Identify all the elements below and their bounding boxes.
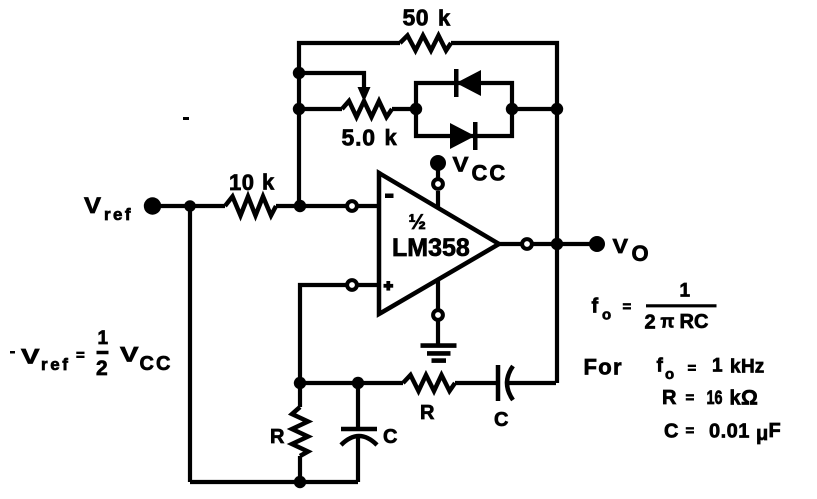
svg-text:V: V — [453, 154, 469, 177]
svg-text:k: k — [730, 388, 742, 410]
svg-text:CC: CC — [140, 353, 173, 375]
resistor R horizontal zigzag — [403, 375, 455, 391]
svg-text:f: f — [657, 356, 664, 377]
svg-text:Ω: Ω — [741, 387, 758, 410]
svg-text:2: 2 — [96, 357, 108, 380]
capacitor C horizontal right curved plate — [507, 366, 513, 400]
svg-text:½: ½ — [409, 211, 427, 234]
svg-text:For: For — [584, 355, 623, 380]
svg-text:1: 1 — [680, 281, 691, 302]
terminal dot Vcc — [430, 155, 446, 171]
wire 5.0k left stub — [299, 107, 342, 111]
wire capacitor to right rail — [508, 381, 556, 385]
svg-text:0.01: 0.01 — [709, 421, 750, 443]
wire R to capacitor — [455, 381, 496, 385]
svg-text:Hz: Hz — [741, 357, 764, 378]
svg-text:ref: ref — [41, 355, 71, 374]
svg-text:R: R — [420, 402, 435, 424]
node junction diode left — [410, 103, 422, 115]
svg-text:2: 2 — [645, 312, 656, 334]
op-amp Vcc pin wire — [436, 191, 440, 208]
svg-text:V: V — [613, 236, 629, 258]
svg-text:CC: CC — [472, 161, 508, 186]
node junction Vref branch — [184, 200, 196, 212]
wire inverting pin stub — [357, 204, 380, 208]
svg-text:=: = — [623, 299, 632, 316]
svg-text:5.0: 5.0 — [342, 125, 376, 151]
diode D2 bottom (cathode right) — [450, 123, 475, 149]
formula fo = 1 / 2 pi RC — [592, 281, 717, 334]
svg-text:V: V — [120, 344, 139, 367]
wire diode top branch — [416, 83, 512, 109]
svg-text:R: R — [270, 426, 285, 448]
svg-text:=: = — [686, 423, 695, 440]
ground symbol — [421, 346, 457, 361]
svg-text:k: k — [438, 6, 451, 31]
svg-text:ref: ref — [104, 205, 133, 224]
svg-text:O: O — [632, 241, 649, 266]
wire vertical R top lead — [298, 383, 302, 407]
svg-text:k: k — [385, 125, 398, 150]
op-amp ground pin wire — [436, 280, 440, 309]
wire 10k to inverting pin — [276, 204, 347, 208]
svg-text:RC: RC — [680, 311, 709, 333]
formula Vref = 1/2 Vcc — [21, 328, 172, 380]
wire vertical C bottom lead — [356, 438, 360, 482]
node junction feedback left — [294, 377, 306, 389]
wire vertical R bottom lead — [298, 456, 302, 482]
pin circle output — [522, 239, 532, 249]
svg-text:k: k — [730, 357, 741, 378]
wire gnd circle to ground symbol — [436, 321, 440, 344]
svg-text:π: π — [661, 312, 675, 332]
node junction diode right — [506, 103, 518, 115]
svg-text:f: f — [592, 296, 599, 318]
wire non-inverting pin stub — [358, 283, 380, 287]
svg-text:V: V — [21, 346, 40, 369]
wire vertical C top lead — [356, 383, 360, 429]
node junction vertical C top — [352, 377, 364, 389]
potentiometer 5.0k zigzag — [342, 101, 392, 117]
svg-text:F: F — [769, 420, 781, 442]
op-amp minus sign — [385, 194, 394, 199]
resistor R vertical zigzag — [292, 407, 308, 456]
svg-text:1: 1 — [712, 356, 723, 377]
svg-text:μ: μ — [756, 423, 768, 445]
terminal dot Vo — [589, 236, 605, 252]
capacitor C vertical top plate — [341, 427, 377, 432]
wire pot wiper — [299, 73, 364, 90]
node junction pot top — [293, 67, 305, 79]
capacitor C horizontal left plate — [496, 365, 501, 401]
svg-text:=: = — [76, 347, 85, 364]
node junction inverting node — [294, 200, 306, 212]
svg-text:=: = — [686, 390, 695, 407]
svg-text:C: C — [494, 409, 508, 431]
op-amp U1 triangle — [379, 173, 499, 314]
terminal dot Vref — [144, 197, 161, 214]
svg-text:R: R — [662, 387, 677, 409]
node junction bottom rail — [294, 476, 306, 488]
wire output to Vo — [533, 242, 590, 246]
svg-text:50: 50 — [403, 5, 430, 31]
node junction right rail top — [551, 103, 563, 115]
wire feedback rail left — [300, 381, 403, 385]
resistor 10k zigzag — [225, 197, 276, 216]
wire diode node to right rail — [512, 107, 557, 111]
svg-text:C: C — [383, 426, 397, 448]
node junction pot left — [293, 103, 305, 115]
wire Vcc dot to pin circle — [436, 168, 440, 178]
wire Vref vertical drop — [188, 206, 192, 482]
svg-text:k: k — [262, 170, 275, 195]
svg-text:C: C — [664, 421, 678, 443]
svg-text:o: o — [602, 307, 611, 324]
svg-text:10: 10 — [229, 170, 254, 195]
formula For fo = 1 kHz — [584, 355, 765, 384]
scan speck formula — [10, 351, 15, 354]
diode D1 top (cathode left) — [456, 70, 481, 96]
pin circle Vcc — [433, 179, 443, 189]
pot wiper arrowhead — [358, 87, 371, 102]
svg-text:1: 1 — [98, 328, 109, 349]
wire top rail left segment — [299, 43, 400, 206]
pin circle non-inverting input — [347, 280, 357, 290]
capacitor C vertical curved plate — [341, 436, 377, 445]
formula R = 16 k ohm — [662, 387, 758, 410]
formula C = 0.01 uF — [664, 420, 781, 445]
wire 5.0k to diode node — [392, 107, 416, 111]
svg-text:16: 16 — [707, 388, 723, 409]
wire non-inverting input — [300, 285, 346, 383]
op-amp plus sign — [384, 281, 394, 291]
pin circle ground — [433, 310, 443, 320]
wire diode bottom branch — [416, 109, 512, 136]
svg-text:=: = — [688, 360, 697, 377]
pin circle inverting input — [347, 201, 357, 211]
wire Vref input — [158, 204, 225, 208]
wire bottom rail — [190, 480, 358, 484]
resistor R 50k zigzag — [400, 36, 451, 51]
wire top rail right segment — [451, 43, 557, 383]
scan speck — [183, 117, 189, 120]
svg-text:o: o — [665, 366, 674, 383]
svg-text:V: V — [84, 193, 101, 218]
wire op-amp output — [497, 242, 521, 246]
node junction right rail output — [551, 238, 563, 250]
svg-text:LM358: LM358 — [392, 234, 470, 262]
